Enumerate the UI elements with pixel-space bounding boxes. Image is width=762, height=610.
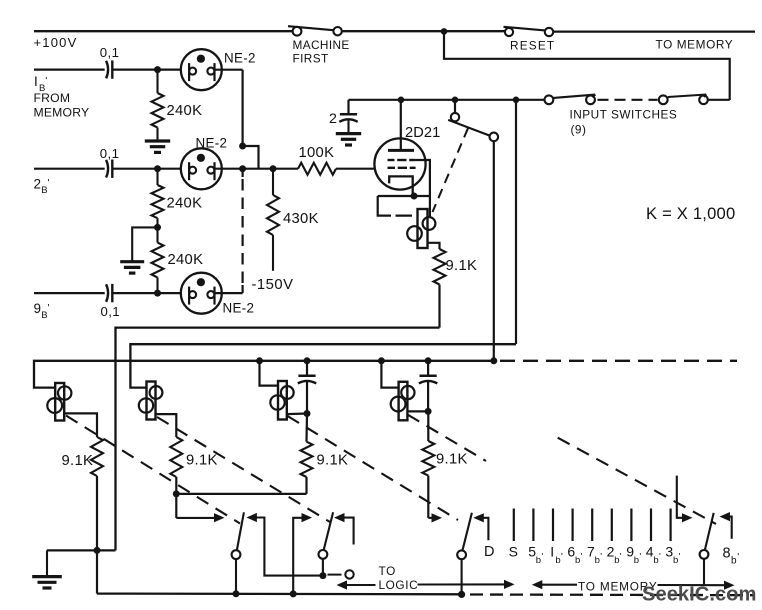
svg-text:9.1K: 9.1K: [436, 452, 468, 468]
svg-text:MEMORY: MEMORY: [34, 105, 90, 119]
wire shield grid lead: [416, 160, 430, 196]
label 2B' row: [34, 176, 50, 196]
svg-text:9.1K: 9.1K: [317, 453, 349, 469]
wire step to ground G2: [132, 227, 158, 261]
transformer T5 pulse: [407, 196, 435, 248]
wire T3 output: [287, 414, 307, 442]
svg-text:b: b: [555, 555, 560, 566]
node 430K junction: [270, 165, 277, 172]
wire dashed between input switches: [598, 99, 658, 101]
neon lamp DS1 NE-2: [181, 49, 222, 90]
svg-text:': ': [561, 551, 563, 562]
svg-text:': ': [639, 551, 641, 562]
svg-text:': ': [581, 551, 583, 562]
switch S2 RESET: [504, 27, 554, 36]
wire dashed linkage T3 to S8: [288, 416, 459, 520]
label 1B' row: [34, 74, 47, 94]
wire R8 to switch S6 feed: [175, 477, 177, 518]
wire grid bus y=100: [349, 99, 545, 101]
svg-text:': ': [541, 551, 543, 562]
neon lamp DS2 NE-2: [181, 148, 222, 189]
svg-text:b: b: [575, 555, 580, 566]
watermark SeekIC.com: [642, 584, 756, 606]
ground G2: [120, 261, 144, 273]
wire input switch to corner: [708, 99, 730, 101]
svg-text:240K: 240K: [168, 252, 204, 268]
label TO LOGIC: [379, 564, 419, 592]
svg-text:2: 2: [329, 111, 337, 127]
wire S7 feed arrow: [293, 513, 312, 594]
label NE-2 DS3: [223, 301, 255, 316]
wire to-logic arrow: [337, 580, 376, 589]
svg-text:+100V: +100V: [34, 35, 78, 50]
wire bottom bus solid: [97, 592, 462, 595]
wire S7 stem: [322, 559, 324, 576]
switch S4 input switch a: [545, 95, 596, 105]
label K = X 1,000: [646, 204, 735, 223]
svg-text:SeekIC.com: SeekIC.com: [642, 584, 756, 606]
wire S6 bracket: [246, 513, 323, 576]
node R8 R9 junction: [173, 490, 180, 497]
ground G4: [32, 550, 62, 588]
resistor R4 100K: [298, 163, 336, 175]
transformer T4 pulse: [391, 382, 415, 421]
wire S9 bracket: [720, 512, 732, 539]
label 9B' row: [34, 301, 50, 321]
node row1 junction: [154, 66, 161, 73]
ground G1: [145, 141, 170, 153]
node unit3 output junction: [304, 410, 311, 417]
svg-text:': ': [48, 177, 50, 189]
label R10 9.1K: [436, 452, 468, 468]
svg-text:': ': [659, 551, 661, 562]
label -150V: [252, 277, 294, 293]
svg-text:b: b: [731, 556, 737, 567]
svg-text:9.1K: 9.1K: [446, 258, 478, 274]
wire cathode bus y=196: [378, 195, 430, 197]
node bottom bus S8: [458, 591, 465, 598]
wire plate lead: [400, 100, 402, 151]
node cathode junction: [411, 193, 418, 200]
svg-text:FIRST: FIRST: [293, 52, 329, 66]
wire S8 stem: [461, 559, 463, 594]
tube V1 grid 2 dashes: [388, 167, 416, 169]
wire S8 bracket: [473, 513, 488, 540]
wire ground spur: [47, 549, 116, 551]
wire unit3 riser: [260, 361, 279, 386]
wire dashed coupling to DS3: [242, 169, 244, 293]
node R7 ground junction: [94, 547, 101, 554]
label R3 240K: [168, 252, 204, 268]
node plate lead junction: [398, 97, 405, 104]
wire +100V rail right segment: [553, 30, 755, 32]
wire R10 to switch S9 feed: [427, 476, 429, 518]
label MACHINE FIRST: [293, 38, 350, 66]
svg-text:b: b: [614, 555, 619, 566]
wire R9 to tie: [305, 477, 307, 494]
resistor R2 240K: [152, 169, 164, 228]
svg-text:b: b: [653, 555, 658, 566]
wire long riser x=516: [515, 100, 517, 344]
wire row 2B' from left: [34, 168, 105, 170]
wire S3 riser to lower bus: [493, 141, 495, 361]
wire row 1B' from left: [34, 68, 105, 70]
wire logic-memory span arrows: [418, 580, 578, 590]
wire S6 feed arrow: [176, 513, 224, 522]
node A junction on rail: [441, 28, 448, 35]
label R7 9.1K: [62, 453, 94, 469]
svg-text:9: 9: [34, 301, 42, 316]
node bus C unit3 cap: [304, 357, 311, 364]
wire +100V rail left segment: [34, 30, 292, 32]
wire S8 feed arrow: [428, 513, 442, 522]
wire C1 to lamp: [113, 68, 190, 70]
svg-text:2: 2: [34, 176, 42, 191]
label C2 0,1: [100, 146, 120, 161]
label NE-2 DS1: [224, 50, 256, 65]
svg-text:9.1K: 9.1K: [62, 453, 94, 469]
capacitor C4 2uF: [339, 100, 357, 134]
wire bottom bus dashed: [470, 593, 753, 596]
label R4 100K: [299, 145, 335, 161]
wire lamp DS1 output: [215, 69, 243, 71]
wire C3 to lamp DS3: [113, 292, 190, 294]
svg-text:LOGIC: LOGIC: [379, 578, 419, 592]
wire dashed linkage T4: [408, 415, 486, 461]
label TO MEMORY top: [656, 38, 734, 52]
svg-text:RESET: RESET: [510, 38, 555, 52]
switch S6: [232, 512, 244, 559]
svg-text:D: D: [484, 544, 494, 560]
svg-text:I: I: [550, 544, 554, 560]
capacitor C3 0.1: [106, 284, 112, 302]
transformer T1 pulse: [47, 383, 71, 421]
tube V1 2D21 envelope: [374, 138, 425, 189]
svg-text:9.1K: 9.1K: [186, 453, 218, 469]
label terminal 8b: [723, 546, 740, 567]
node bus C unit4 cap: [425, 357, 432, 364]
svg-text:0,1: 0,1: [100, 146, 120, 161]
svg-text:0,1: 0,1: [101, 304, 121, 319]
svg-text:2D21: 2D21: [405, 125, 440, 141]
svg-text:430K: 430K: [283, 211, 319, 227]
wire S6 stem: [235, 559, 237, 594]
capacitor C6: [419, 361, 437, 412]
node row2 mid junction: [154, 224, 161, 231]
label INPUT SWITCHES: [570, 108, 678, 137]
wire +100V rail middle segment: [342, 30, 505, 32]
switch S7: [319, 512, 334, 559]
neon lamp DS3 NE-2: [181, 273, 222, 314]
label R2 240K: [167, 196, 203, 212]
wire lamp DS1 drop: [242, 70, 244, 146]
svg-text:S: S: [509, 544, 518, 560]
wire memory arrow right: [658, 581, 735, 590]
resistor R3 240K: [152, 227, 164, 293]
svg-text:NE-2: NE-2: [223, 301, 255, 316]
wire S7 bracket: [334, 513, 354, 545]
svg-text:': ': [620, 551, 622, 562]
node row3 junction: [154, 290, 161, 297]
wire dashed linkage T2 to S7: [157, 417, 330, 522]
wire grid lead to tube: [336, 168, 375, 170]
svg-text:(9): (9): [571, 122, 587, 136]
svg-text:': ': [48, 302, 50, 314]
svg-text:b: b: [634, 555, 639, 566]
ground G3: [336, 133, 361, 145]
wire bus C solid: [34, 361, 494, 388]
switch S9 8b: [700, 513, 714, 559]
node bottom bus S7 feed: [290, 590, 297, 597]
tube V1 anode plate: [388, 149, 414, 152]
wire unit4 riser: [381, 361, 398, 388]
label C3 0,1: [101, 304, 121, 319]
wire T1 output: [64, 413, 97, 437]
svg-text:NE-2: NE-2: [196, 136, 228, 151]
wire C2 to lamp DS2: [113, 168, 190, 170]
wire T5 output: [428, 243, 440, 249]
wire S9 stem: [703, 559, 705, 586]
label +100V: [34, 35, 78, 50]
wire coupling step to row2: [243, 146, 259, 169]
svg-text:K = X 1,000: K = X 1,000: [646, 204, 735, 223]
node S6 bracket to S7 stem: [319, 572, 326, 579]
wire lamp DS2 output to 100K: [215, 168, 298, 170]
label terminal D: [484, 544, 494, 560]
wire dashed linkage T1 to S6: [66, 416, 240, 524]
wire reset bypass from node A to input-switch corner: [444, 31, 730, 100]
tube V1 cathode: [389, 176, 413, 196]
resistor R1 240K: [152, 70, 164, 141]
resistor R6 9.1K: [434, 249, 446, 328]
svg-text:240K: 240K: [167, 196, 203, 212]
svg-text:INPUT SWITCHES: INPUT SWITCHES: [570, 108, 678, 122]
svg-text:b: b: [536, 555, 541, 566]
wire S9 feed arrow: [677, 476, 693, 523]
label C1 0,1: [100, 45, 120, 60]
label R6 9.1K: [446, 258, 478, 274]
terminal ticks S..3b: [514, 509, 671, 542]
resistor R7 9.1K: [91, 437, 103, 476]
node bus C unit4 riser: [378, 357, 385, 364]
wire T2 output: [156, 414, 177, 437]
wire bus B: [130, 344, 516, 387]
svg-text:-150V: -150V: [252, 277, 294, 293]
svg-text:100K: 100K: [299, 145, 335, 161]
switch S8 D: [457, 513, 472, 559]
label RESET: [510, 38, 555, 52]
labels tick terminals: [509, 544, 681, 566]
wire dashed linkage S3 to T5: [433, 128, 469, 212]
svg-text:': ': [45, 75, 47, 87]
svg-text:b: b: [595, 555, 600, 566]
label C4 2: [329, 111, 337, 127]
svg-text:': ': [600, 551, 602, 562]
resistor R10 9.1K: [422, 441, 434, 476]
svg-text:NE-2: NE-2: [224, 50, 256, 65]
transformer T3 pulse: [270, 381, 293, 420]
label NE-2 DS2: [196, 136, 228, 151]
svg-text:I: I: [34, 74, 38, 89]
svg-text:240K: 240K: [167, 103, 203, 119]
svg-text:TO MEMORY: TO MEMORY: [656, 38, 734, 52]
node coupling junction: [239, 143, 246, 150]
node unit4 output junction: [425, 408, 432, 415]
label TO MEMORY bottom: [578, 579, 658, 593]
wire dashed linkage to S9: [558, 438, 716, 524]
switch S5 input switch b: [659, 95, 708, 105]
capacitor C1 0.1: [106, 60, 112, 78]
node row2 coupling junction: [239, 165, 246, 172]
transformer T2 pulse: [139, 382, 163, 420]
capacitor C2 0.1: [106, 160, 112, 178]
wire lamp DS3 output: [215, 292, 243, 294]
label R5 430K: [283, 211, 319, 227]
svg-text:8: 8: [723, 546, 731, 562]
node bottom bus S6: [233, 590, 240, 597]
node bus C S3 riser: [490, 357, 497, 364]
wire row 9B' from left: [34, 292, 105, 294]
svg-text:TO: TO: [379, 564, 396, 578]
wire T4 output: [407, 411, 428, 441]
resistor R8 9.1K: [170, 437, 182, 477]
capacitor C5: [298, 361, 316, 414]
terminal O output: [328, 570, 354, 578]
svg-text:': ': [679, 551, 681, 562]
resistor R9 9.1K: [301, 442, 313, 477]
wire cathode hook: [378, 196, 412, 216]
svg-text:': ': [737, 552, 739, 563]
tube V1 grid 1 dashes: [388, 159, 416, 161]
node bus C unit3 riser: [256, 357, 263, 364]
resistor R5 430K: [267, 169, 279, 271]
label R1 240K: [167, 103, 203, 119]
wire bus C dashed: [500, 360, 737, 362]
label FROM MEMORY: [34, 91, 90, 120]
switch S1 MACHINE FIRST: [288, 26, 342, 35]
node row2 junction left: [154, 165, 161, 172]
node switch S3 junction: [452, 97, 459, 104]
wire R7 to bottom bus: [96, 476, 98, 594]
svg-text:0,1: 0,1: [100, 45, 120, 60]
switch S3 relay contact: [448, 100, 498, 141]
svg-text:MACHINE: MACHINE: [293, 38, 350, 52]
svg-text:FROM: FROM: [34, 91, 71, 105]
wire R8-R9 tie: [176, 493, 306, 495]
svg-text:b: b: [673, 555, 678, 566]
label R9 9.1K: [317, 453, 349, 469]
wire bus A: [116, 328, 440, 551]
node long riser junction: [513, 97, 520, 104]
label R8 9.1K: [186, 453, 218, 469]
label 2D21: [405, 125, 440, 141]
